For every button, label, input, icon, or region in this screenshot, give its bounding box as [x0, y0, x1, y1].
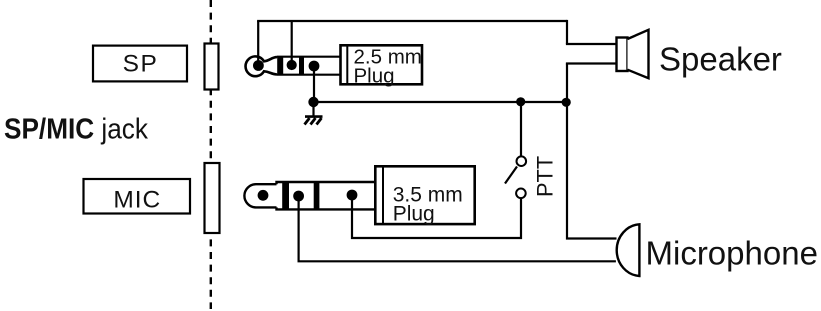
wire: speaker minus down to ground rail and on to microphone — [567, 64, 617, 239]
2.5mm plug tip and neck — [246, 56, 277, 76]
junction dot PTT tap — [516, 97, 525, 106]
svg-text:Speaker: Speaker — [659, 41, 782, 78]
3.5mm plug ring contact dot — [293, 191, 304, 202]
2.5mm plug insulator band 2 — [299, 56, 304, 75]
speaker driver rect — [617, 38, 628, 72]
svg-text:Plug: Plug — [393, 202, 435, 225]
dashed radio panel line — [210, 0, 212, 309]
ground symbol — [305, 102, 323, 125]
PTT switch bottom contact — [516, 189, 526, 199]
ground rail — [314, 101, 568, 103]
SP label box — [93, 46, 187, 82]
2.5mm plug body inner edge — [346, 44, 348, 84]
wire: 2.5mm sleeve to ground junction — [313, 66, 315, 102]
2.5mm plug sleeve contact dot — [309, 61, 320, 72]
wire: 2.5mm tip to top rail — [257, 21, 259, 66]
svg-text:Microphone: Microphone — [646, 234, 818, 271]
3.5mm plug barrel outline — [277, 182, 376, 209]
wire: 3.5mm ring1 to microphone minus — [299, 196, 616, 261]
microphone symbol — [617, 224, 640, 276]
3.5mm plug insulator band 1 — [282, 181, 289, 210]
svg-text:SP/MIC jack: SP/MIC jack — [4, 114, 148, 146]
wire: PTT to 3.5mm ring — [352, 195, 521, 238]
svg-text:Plug: Plug — [354, 64, 395, 87]
wire: rail down to speaker plus — [566, 20, 568, 44]
2.5mm plug insulator band 1 — [277, 56, 283, 75]
wire: speaker plus lead — [566, 43, 617, 45]
3.5mm plug body inner edge — [382, 165, 384, 224]
svg-text:MIC: MIC — [113, 187, 161, 214]
3.5mm plug tip contact dot — [258, 190, 269, 201]
wire: top rail — [257, 20, 567, 22]
3.5mm plug sleeve contact dot — [347, 190, 358, 201]
speaker cone — [628, 30, 649, 78]
SP jack contact — [205, 44, 219, 90]
2.5mm plug barrel outline — [277, 57, 340, 75]
PTT switch top contact — [517, 156, 527, 166]
MIC jack contact — [205, 163, 220, 233]
svg-text:SP: SP — [123, 50, 159, 77]
3.5mm plug body box — [375, 166, 474, 224]
2.5mm plug tip contact dot — [253, 60, 264, 71]
2.5mm plug body box — [341, 45, 423, 84]
PTT switch lever — [505, 167, 517, 184]
MIC label box — [84, 179, 191, 214]
3.5mm plug insulator band 2 — [314, 181, 320, 210]
junction dot at ground — [308, 97, 318, 107]
3.5mm plug tip — [244, 184, 276, 207]
wire: PTT riser from ground rail — [520, 102, 522, 157]
wire: speaker minus lead — [566, 62, 617, 64]
2.5mm plug ring contact dot — [287, 60, 297, 70]
junction dot speaker-mic branch — [562, 98, 571, 107]
wire: 2.5mm ring to top rail — [291, 21, 293, 65]
svg-text:PTT: PTT — [533, 156, 558, 197]
